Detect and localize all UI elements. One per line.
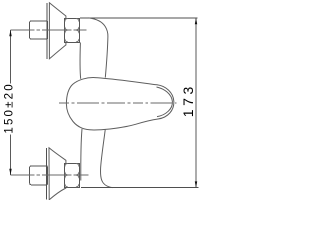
escutcheon cone (top) [49, 3, 66, 59]
hex nut (bottom) [65, 163, 80, 187]
centerline (top union) [11, 29, 87, 31]
label 150±20 [3, 82, 16, 134]
mixer body upper column [89, 18, 108, 78]
centerline (bottom union) [11, 174, 89, 176]
label 173 [180, 83, 196, 117]
dimension line 150±20 [10, 30, 12, 175]
hex nut (top) [65, 18, 80, 42]
escutcheon face plate (top) [46, 3, 48, 59]
wire bottom extension line (173 dim, bottom edge of body) [81, 187, 199, 189]
arrow up (173 dim) [195, 18, 197, 25]
mixer body lower column [81, 129, 82, 181]
wire top extension line (173 dim, top edge of body) [80, 17, 197, 19]
pipe stub (top) [30, 21, 48, 39]
svg-text:173: 173 [180, 83, 196, 117]
arrow down (173 dim) [195, 181, 197, 188]
handle end inner arc [157, 87, 173, 117]
lever handle outline [66, 78, 173, 130]
arrow down (150 dim) [9, 169, 11, 176]
dimension line 173 [195, 18, 197, 188]
centerline (handle axis) [59, 102, 177, 104]
svg-text:150±20: 150±20 [4, 82, 16, 134]
escutcheon face plate (bottom) [46, 148, 48, 200]
arrow up (150 dim) [9, 30, 11, 37]
pipe stub (bottom) [30, 166, 48, 185]
escutcheon cone (bottom) [49, 148, 66, 200]
